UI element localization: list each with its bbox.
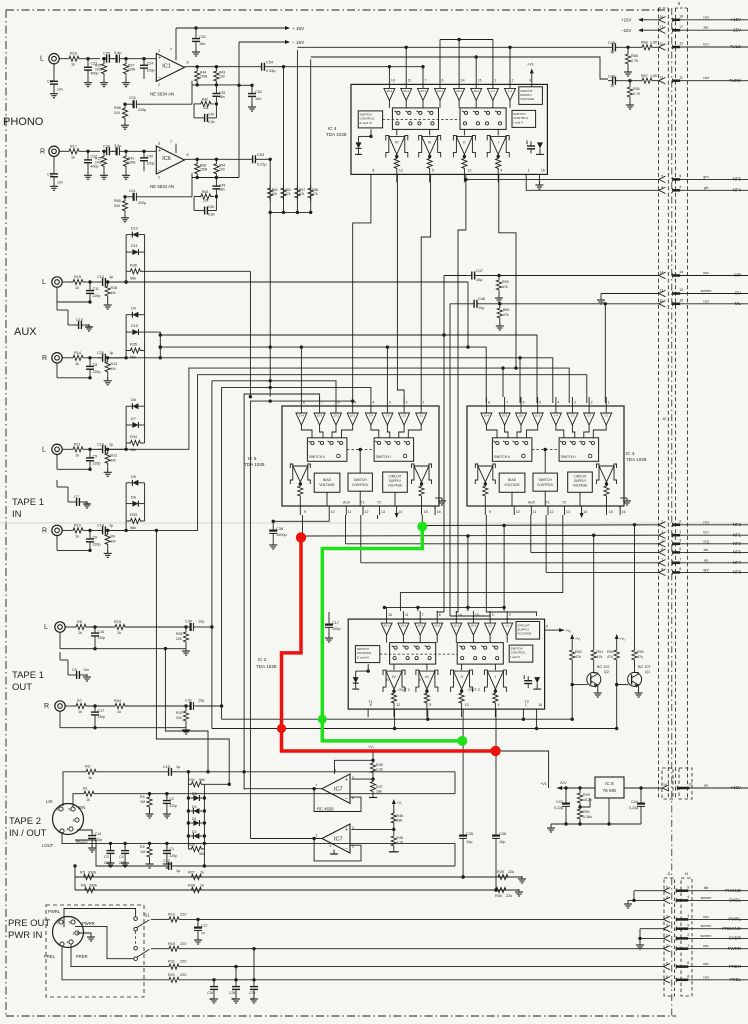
stair S3 [212, 379, 336, 397]
svg-text:1M: 1M [111, 291, 116, 295]
resistor R49 [577, 788, 592, 809]
wire IC2 pin4 down [495, 717, 497, 830]
svg-text:1-1: 1-1 [505, 624, 509, 628]
capacitor C46 [608, 75, 639, 88]
svg-text:C30: C30 [103, 144, 110, 148]
stair S4 [222, 386, 371, 397]
stair S1 [110, 366, 569, 449]
svg-text:5: 5 [69, 808, 71, 812]
svg-text:TDA 1028: TDA 1028 [326, 132, 347, 137]
wire LIN row [63, 765, 164, 807]
svg-text:2: 2 [512, 78, 514, 82]
svg-text:R51: R51 [176, 632, 183, 636]
wire R6 row [75, 877, 519, 892]
page border bottom [6, 1015, 676, 1017]
svg-text:16: 16 [622, 510, 626, 514]
svg-text:10: 10 [388, 613, 392, 617]
svg-text:R3: R3 [85, 765, 90, 769]
capacitor C45 [608, 41, 639, 54]
IC IC4 TDA1028 [351, 62, 547, 182]
svg-text:16: 16 [437, 510, 441, 514]
svg-text:10µ: 10µ [478, 306, 485, 310]
stair L1 [159, 345, 487, 403]
+V1 arrow Q2 [570, 634, 581, 642]
svg-text:100µ: 100µ [332, 627, 341, 631]
wire T1out-R to IC2 [222, 718, 573, 721]
svg-text:SWITCH: SWITCH [539, 478, 553, 482]
svg-text:9: 9 [666, 886, 668, 890]
svg-text:1D-1: 1D-1 [456, 89, 462, 93]
svg-text:47k: 47k [597, 655, 603, 659]
svg-text:100k: 100k [95, 68, 103, 72]
svg-text:R34: R34 [130, 435, 137, 439]
capacitor C10 [57, 302, 93, 331]
capacitor C2 [163, 792, 177, 818]
svg-text:NF4: NF4 [733, 188, 742, 193]
wire pin13vert to IC2 pin14 [456, 610, 458, 613]
svg-text:AUX: AUX [528, 501, 536, 505]
svg-text:R42: R42 [202, 97, 208, 101]
svg-text:C47: C47 [476, 269, 483, 273]
svg-text:brn: brn [703, 43, 708, 47]
IC IC3 TDA1029 [467, 397, 631, 518]
svg-text:8: 8 [372, 168, 374, 172]
svg-text:R47: R47 [376, 785, 383, 789]
svg-text:R7: R7 [77, 699, 82, 703]
wire IC7a pin8 supply [335, 751, 375, 774]
TAPE1 R input [42, 523, 126, 557]
svg-text:IC 3: IC 3 [626, 451, 635, 456]
resistor R58 [624, 47, 639, 76]
svg-text:SNDR: SNDR [729, 936, 741, 941]
svg-text:2N-2: 2N-2 [384, 624, 390, 628]
svg-text:C14: C14 [95, 832, 102, 836]
pin 13 OV [659, 288, 748, 297]
svg-text:R40: R40 [495, 894, 502, 898]
pin 9 PHGND [664, 885, 748, 894]
svg-text:R67: R67 [641, 74, 648, 78]
svg-text:10n: 10n [57, 180, 63, 184]
wire NF2 [422, 524, 659, 527]
svg-text:1-2: 1-2 [491, 89, 495, 93]
stub IC3 pin7 [501, 366, 504, 397]
svg-text:4: 4 [67, 828, 69, 832]
stair S5 [244, 394, 320, 790]
svg-text:I: I [498, 139, 499, 144]
svg-text:14: 14 [458, 613, 462, 617]
svg-text:BIAS: BIAS [323, 478, 331, 482]
svg-text:22V: 22V [560, 781, 567, 785]
svg-text:1-4: 1-4 [369, 413, 373, 417]
svg-text:10n: 10n [255, 97, 261, 101]
svg-text:NE 5534 AN: NE 5534 AN [150, 184, 174, 189]
svg-text:R5: R5 [80, 871, 85, 875]
svg-text:0,22µ: 0,22µ [257, 163, 267, 167]
svg-text:D10: D10 [131, 324, 138, 328]
resistor R40 [493, 887, 523, 898]
svg-text:+: + [158, 55, 161, 61]
svg-text:10n: 10n [199, 42, 205, 46]
svg-text:C3: C3 [104, 855, 109, 859]
wire vert col2 [283, 67, 285, 213]
DIN connector preout [44, 909, 95, 959]
resistor R61 [281, 185, 291, 201]
wire PREGND [636, 929, 664, 949]
svg-text:−: − [345, 796, 348, 802]
diode ladder R29 [188, 843, 205, 856]
svg-text:M: M [685, 872, 688, 876]
svg-text:6,8n: 6,8n [208, 213, 215, 217]
svg-text:2D-2: 2D-2 [437, 89, 443, 93]
svg-text:C15: C15 [163, 765, 170, 769]
resistor R53 [632, 644, 644, 673]
stub IC2 pin12 [394, 717, 396, 728]
pin 17 -15V [659, 25, 748, 34]
stair L2 [110, 356, 553, 403]
svg-text:56k: 56k [130, 448, 136, 452]
svg-text:R19: R19 [168, 942, 175, 946]
svg-text:PRER: PRER [76, 954, 88, 959]
pin 2 NF2 [659, 519, 748, 528]
wire col1 down [269, 212, 271, 396]
svg-text:22k: 22k [176, 637, 182, 641]
page border top [6, 9, 670, 11]
svg-text:10-4: 10-4 [299, 413, 305, 417]
svg-text:NF6: NF6 [733, 550, 742, 555]
diode D4 [190, 805, 202, 814]
wire +V1 to IC8 [496, 751, 549, 788]
wire R36 row to v250 [145, 270, 251, 272]
resistor R47 [369, 779, 383, 798]
svg-text:1k: 1k [71, 155, 75, 159]
svg-text:PRE OUT: PRE OUT [8, 918, 50, 929]
svg-text:1M: 1M [111, 367, 116, 371]
stub IC2 pin10 [383, 606, 387, 611]
svg-text:220p: 220p [98, 715, 106, 719]
phono jack R network [40, 144, 156, 191]
svg-text:10-3: 10-3 [317, 413, 323, 417]
svg-text:4: 4 [498, 703, 500, 707]
svg-text:R52: R52 [575, 650, 582, 654]
svg-text:6: 6 [352, 796, 354, 800]
svg-text:D8: D8 [131, 398, 136, 402]
svg-text:1k: 1k [200, 884, 204, 888]
svg-text:+V₁: +V₁ [397, 801, 403, 805]
svg-text:R51: R51 [597, 650, 604, 654]
svg-text:5,36k: 5,36k [583, 815, 592, 819]
svg-text:S1: S1 [145, 913, 151, 918]
IC7b pin4 gnd [330, 844, 339, 854]
svg-text:220p: 220p [93, 461, 101, 465]
svg-text:blk: blk [704, 886, 709, 890]
stub IC2 pin7 [417, 607, 419, 611]
wire AUX-L long row [110, 280, 470, 349]
svg-text:VOLTAGE: VOLTAGE [517, 632, 531, 636]
svg-text:10-1: 10-1 [350, 413, 356, 417]
svg-text:4: 4 [687, 895, 689, 899]
svg-text:org: org [703, 539, 708, 543]
resistor R56 [308, 185, 318, 201]
svg-text:9: 9 [529, 78, 531, 82]
svg-text:Q2: Q2 [604, 670, 609, 674]
svg-text:100k: 100k [128, 68, 136, 72]
svg-text:R30: R30 [188, 778, 195, 782]
svg-text:SWITCH II: SWITCH II [494, 455, 510, 459]
svg-text:D5: D5 [131, 475, 136, 479]
svg-text:1: 1 [661, 530, 663, 534]
svg-text:220: 220 [180, 913, 186, 917]
+V1 label red rail [368, 745, 375, 749]
svg-text:IC1: IC1 [162, 64, 171, 70]
svg-text:1: 1 [687, 943, 689, 947]
svg-text:R2: R2 [140, 845, 145, 849]
svg-text:9: 9 [546, 625, 548, 629]
svg-text:R33: R33 [130, 513, 137, 517]
svg-text:D3: D3 [192, 792, 197, 796]
svg-text:6: 6 [442, 78, 444, 82]
svg-text:5: 5 [354, 401, 356, 405]
svg-text:R21: R21 [168, 973, 175, 977]
svg-text:PHGND: PHGND [725, 888, 741, 893]
svg-text:IC6: IC6 [162, 156, 171, 162]
wire PWRR line [151, 948, 166, 950]
capacitor C56 [492, 830, 506, 892]
svg-text:1-1: 1-1 [604, 413, 608, 417]
label IC3 [626, 451, 647, 462]
svg-text:+: + [158, 148, 161, 154]
wire R5 row [73, 864, 522, 878]
svg-text:13: 13 [679, 288, 683, 292]
svg-text:0,22µ: 0,22µ [554, 806, 563, 810]
svg-text:TAPE 1: TAPE 1 [12, 670, 44, 681]
svg-text:TAPE 1: TAPE 1 [12, 497, 44, 508]
pin 15 ML [659, 298, 748, 307]
pin 11 TURS [659, 75, 748, 84]
svg-text:2: 2 [158, 83, 160, 87]
IC6 feedback network [114, 158, 248, 222]
svg-text:+ 15V: + 15V [292, 26, 305, 31]
svg-text:C33: C33 [129, 96, 136, 100]
svg-text:R12: R12 [111, 453, 118, 457]
wire PHGND [634, 891, 664, 901]
wire IC7a output [244, 787, 322, 790]
svg-text:R49: R49 [583, 793, 590, 797]
svg-text:10µ: 10µ [499, 840, 506, 844]
svg-text:7: 7 [425, 78, 427, 82]
svg-text:7: 7 [170, 140, 172, 144]
wire C48vert to IC2 pin3 [450, 611, 490, 616]
svg-text:C44: C44 [631, 800, 638, 804]
svg-text:8: 8 [687, 974, 689, 978]
wire phonoL bus [284, 65, 425, 68]
svg-text:R46: R46 [397, 814, 404, 818]
svg-text:PWRL: PWRL [728, 917, 741, 922]
stub IC5 pin8 [300, 347, 302, 397]
svg-text:NF3: NF3 [733, 541, 742, 546]
IC8 +V1 arrow [540, 781, 595, 790]
svg-text:9: 9 [687, 885, 689, 889]
connector shell bottom left [664, 878, 675, 996]
pin 14 MR [659, 270, 748, 279]
svg-text:2N-1: 2N-1 [403, 89, 409, 93]
svg-text:2N-2: 2N-2 [387, 89, 393, 93]
svg-text:SUPPLY: SUPPLY [389, 479, 402, 483]
svg-text:10: 10 [391, 78, 395, 82]
svg-text:1k: 1k [75, 362, 79, 366]
svg-text:+V1: +V1 [527, 62, 534, 66]
svg-text:C28: C28 [229, 991, 235, 995]
+15V feed [176, 26, 305, 51]
label TAPE 1 IN [12, 497, 44, 520]
svg-text:D2: D2 [192, 830, 197, 834]
wire feedback L ext [239, 84, 252, 86]
svg-text:9: 9 [489, 510, 491, 514]
wire NF5 [464, 178, 659, 181]
svg-text:5: 5 [666, 924, 668, 928]
svg-text:7: 7 [170, 48, 172, 52]
svg-text:J1: J1 [667, 872, 671, 876]
diode D2 [190, 830, 202, 839]
svg-text:47k: 47k [502, 285, 508, 289]
svg-text:10: 10 [331, 510, 335, 514]
svg-text:R31: R31 [168, 960, 175, 964]
IC IC8 78MG [595, 777, 624, 798]
svg-text:GNDL: GNDL [729, 898, 742, 903]
svg-text:220p: 220p [98, 636, 106, 640]
svg-text:−: − [158, 75, 161, 81]
pin 6 NF6 [659, 547, 748, 556]
svg-text:1k: 1k [200, 871, 204, 875]
svg-text:CONTROL: CONTROL [352, 483, 369, 487]
svg-text:R6: R6 [81, 884, 86, 888]
svg-text:100p: 100p [147, 161, 155, 165]
svg-text:C24: C24 [147, 62, 154, 66]
svg-text:unc: unc [703, 962, 709, 966]
svg-text:screen: screen [701, 289, 712, 293]
svg-text:2D-1: 2D-1 [420, 89, 426, 93]
capacitor C29 [249, 947, 258, 1003]
svg-text:6: 6 [679, 547, 681, 551]
svg-text:4: 4 [661, 185, 663, 189]
label AUX [14, 326, 37, 338]
connector shell +32V [662, 768, 692, 799]
svg-text:C1: C1 [169, 847, 174, 851]
svg-text:VOLTAGE: VOLTAGE [520, 97, 534, 101]
stub IC2 pin16b [536, 717, 538, 728]
svg-text:C29: C29 [47, 80, 53, 84]
svg-text:220p: 220p [93, 294, 101, 298]
svg-text:R63: R63 [202, 190, 208, 194]
svg-text:1-3: 1-3 [386, 413, 390, 417]
svg-text:NE 5534 AN: NE 5534 AN [150, 92, 174, 97]
svg-text:220p: 220p [169, 804, 177, 808]
label J1 bottom [667, 872, 688, 876]
svg-text:400p: 400p [91, 72, 99, 76]
svg-text:6: 6 [687, 961, 689, 965]
svg-text:VOLTAGE: VOLTAGE [573, 484, 588, 488]
svg-text:C53: C53 [257, 153, 264, 157]
wire IC7a fb [314, 789, 361, 812]
resistor R50 [577, 806, 592, 824]
svg-text:CONTROL: CONTROL [511, 651, 526, 655]
TAPE1 OUT L [44, 381, 214, 729]
svg-text:2: 2 [73, 819, 75, 823]
svg-text:PREGND: PREGND [722, 926, 741, 931]
label IC4 [326, 126, 347, 137]
wire monitor link [160, 333, 537, 403]
svg-text:6: 6 [439, 613, 441, 617]
svg-text:7: 7 [506, 401, 508, 405]
svg-text:7: 7 [422, 613, 424, 617]
svg-text:6: 6 [187, 153, 189, 157]
resistor R19 [166, 942, 664, 952]
svg-text:NF5: NF5 [733, 177, 742, 182]
svg-text:17: 17 [679, 25, 683, 29]
stub pin11 [405, 47, 407, 76]
pin 2 SNDR [664, 933, 748, 942]
pin 12 TULS [659, 42, 748, 51]
svg-text:R65: R65 [114, 199, 121, 203]
wire IC8 out [624, 786, 663, 789]
svg-text:220p: 220p [93, 370, 101, 374]
wire GNDL [624, 899, 664, 908]
svg-text:−: − [345, 846, 348, 852]
resistor R28 [188, 884, 204, 893]
connector shell bottom right [681, 878, 692, 996]
svg-text:47k: 47k [312, 192, 318, 196]
svg-text:220µ: 220µ [138, 201, 146, 205]
transistor Q1 [617, 665, 651, 697]
svg-text:10µ: 10µ [476, 278, 483, 282]
svg-text:1k: 1k [75, 453, 79, 457]
label IC5 [244, 456, 265, 467]
wire pin3 tap [351, 828, 393, 830]
svg-text:5: 5 [432, 168, 434, 172]
svg-text:8: 8 [661, 567, 663, 571]
resistor R4 [140, 794, 154, 818]
capacitor C52 [248, 84, 262, 111]
svg-text:blu: blu [704, 548, 709, 552]
svg-text:D9: D9 [131, 307, 136, 311]
svg-text:1000µ: 1000µ [276, 533, 287, 537]
stub pin14 [458, 40, 460, 77]
svg-text:R28: R28 [188, 884, 195, 888]
capacitor C13 [163, 843, 455, 873]
AUX L input [42, 275, 126, 309]
wire vert col4 [310, 59, 312, 212]
svg-text:T1: T1 [546, 501, 550, 505]
svg-text:L: L [42, 446, 46, 453]
-15V left arrow [621, 28, 660, 33]
svg-text:blu: blu [704, 26, 709, 30]
scan fold line [0, 522, 748, 524]
svg-text:NF2: NF2 [733, 522, 742, 527]
resistor R51b [591, 644, 603, 673]
pin 4 NF4 [659, 185, 748, 194]
svg-text:14: 14 [398, 510, 402, 514]
svg-text:R58: R58 [631, 54, 638, 58]
svg-text:T2: T2 [524, 699, 529, 704]
svg-text:3: 3 [679, 538, 681, 542]
svg-text:C50: C50 [208, 205, 214, 209]
wire diode col links [144, 271, 146, 406]
diode D3 [190, 792, 202, 801]
svg-text:56k: 56k [130, 276, 136, 280]
svg-text:1M: 1M [140, 850, 145, 854]
svg-text:− 15V: − 15V [292, 40, 305, 45]
svg-text:1-3: 1-3 [571, 413, 575, 417]
svg-text:AUX: AUX [14, 326, 37, 338]
